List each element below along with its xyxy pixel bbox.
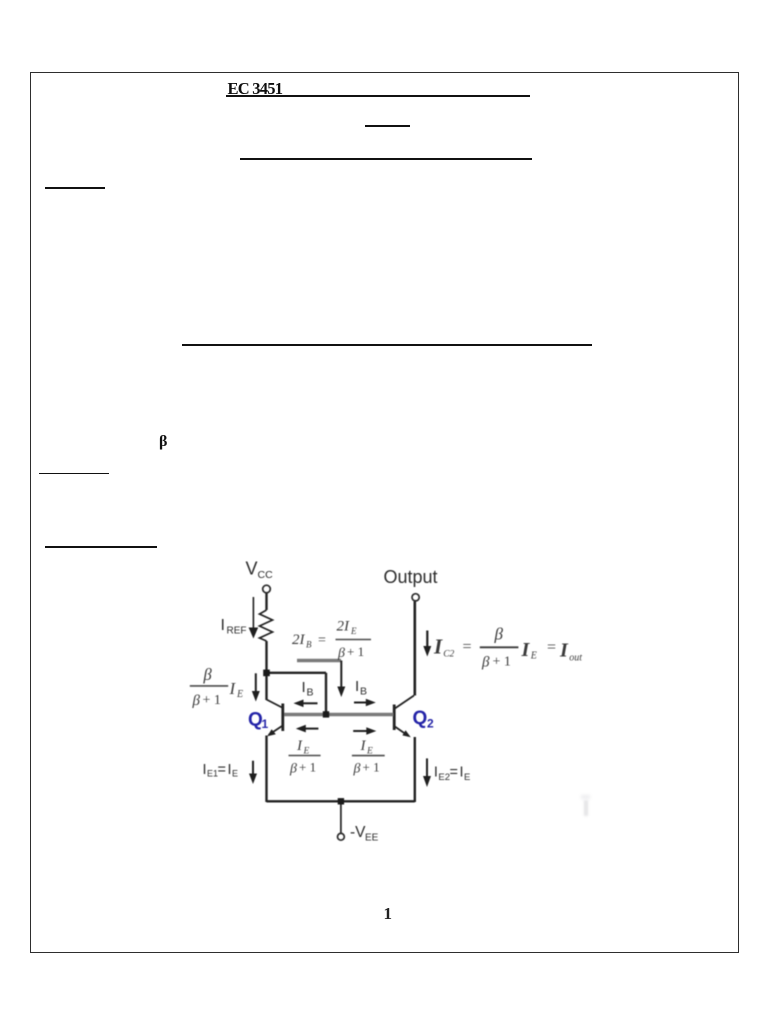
svg-text:I: I: [296, 738, 303, 754]
svg-text:E: E: [464, 772, 470, 783]
svg-text:CC: CC: [258, 569, 274, 581]
svg-text:2: 2: [427, 717, 434, 731]
svg-text:+ 1: + 1: [203, 693, 221, 708]
svg-text:E: E: [236, 689, 243, 700]
svg-text:B: B: [360, 686, 367, 698]
svg-text:β: β: [494, 625, 504, 644]
svg-text:I: I: [355, 678, 359, 695]
svg-text:I: I: [360, 738, 367, 754]
svg-text:I: I: [521, 639, 531, 661]
svg-text:+ 1: + 1: [347, 644, 364, 659]
svg-text:=: =: [450, 765, 458, 781]
svg-text:I: I: [229, 679, 237, 698]
svg-text:=: =: [218, 762, 226, 778]
svg-text:V: V: [246, 559, 258, 579]
svg-text:I: I: [203, 762, 207, 778]
svg-text:+ 1: + 1: [493, 655, 511, 670]
svg-text:I: I: [460, 765, 464, 781]
svg-text:out: out: [569, 653, 582, 664]
svg-text:β: β: [289, 762, 297, 777]
svg-text:β: β: [481, 655, 490, 671]
svg-text:β: β: [353, 762, 361, 777]
svg-text:I: I: [433, 635, 443, 659]
svg-text:E1: E1: [207, 769, 218, 779]
svg-text:Output: Output: [384, 567, 438, 587]
svg-text:REF: REF: [227, 626, 247, 637]
svg-text:+ 1: + 1: [363, 760, 380, 775]
svg-text:EE: EE: [365, 833, 379, 844]
svg-text:2I: 2I: [337, 619, 351, 635]
svg-text:I: I: [221, 617, 225, 634]
svg-text:β: β: [203, 665, 213, 684]
svg-text:I: I: [228, 762, 232, 778]
svg-text:+ 1: + 1: [299, 760, 316, 775]
svg-text:I: I: [302, 679, 306, 696]
svg-text:B: B: [306, 640, 312, 650]
svg-text:E2: E2: [438, 772, 450, 783]
svg-text:1: 1: [262, 717, 269, 731]
svg-text:E: E: [350, 626, 357, 636]
svg-text:=: =: [547, 639, 556, 656]
svg-text:Q: Q: [413, 708, 428, 729]
svg-text:=: =: [463, 639, 472, 656]
svg-text:B: B: [307, 687, 314, 699]
svg-text:E: E: [530, 651, 537, 662]
svg-text:I: I: [434, 765, 438, 781]
svg-text:I: I: [559, 640, 569, 662]
svg-text:2I: 2I: [292, 632, 306, 648]
svg-text:C2: C2: [443, 650, 454, 660]
svg-text:-V: -V: [350, 824, 366, 841]
svg-text:=: =: [318, 633, 326, 648]
svg-text:β: β: [337, 646, 345, 661]
svg-text:β: β: [192, 693, 201, 709]
svg-text:E: E: [232, 769, 238, 779]
